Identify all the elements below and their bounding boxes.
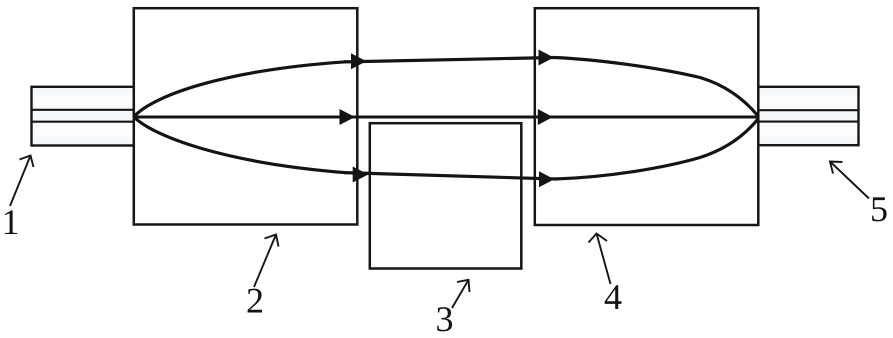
top ray left curve: [135, 62, 347, 116]
leader arrow for label 5: [830, 162, 869, 199]
box 2 (first lens block): [134, 8, 357, 224]
arrowhead top ray first: [351, 53, 366, 69]
bottom ray left curve: [135, 118, 347, 173]
leader arrow for label 1: [10, 156, 34, 207]
label 5: [872, 197, 887, 221]
box 3 (lower middle block): [370, 123, 522, 268]
leader arrow for label 2: [254, 235, 279, 288]
label 2: [248, 289, 262, 313]
output fiber 5 (right striped rectangle): [758, 87, 859, 145]
input fiber 1 (left striped rectangle): [32, 87, 135, 146]
bottom ray right curve: [555, 119, 758, 179]
bottom ray middle segment: [344, 173, 556, 179]
top ray right curve: [554, 58, 758, 117]
arrowhead top ray second: [539, 50, 554, 66]
arrowhead middle ray first: [340, 109, 356, 125]
label 1: [5, 210, 18, 234]
arrowhead middle ray second: [538, 109, 553, 125]
top ray middle segment: [344, 58, 554, 62]
arrowhead bottom ray first: [353, 167, 369, 183]
label 3: [437, 307, 452, 331]
leader arrow for label 4: [589, 234, 611, 285]
leader arrow for label 3: [452, 280, 470, 308]
axis ray (middle straight beam): [135, 116, 758, 119]
label 4: [605, 285, 622, 309]
box 4 (second lens block): [535, 8, 759, 225]
arrowhead bottom ray second: [539, 171, 554, 187]
